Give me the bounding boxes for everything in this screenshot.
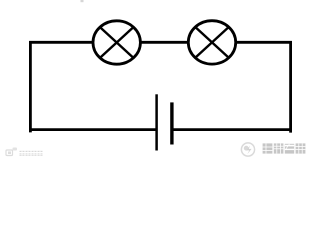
watermark: bottom-left logo and text (6, 148, 43, 156)
wire: bottom-right horizontal (173, 128, 292, 131)
watermark: bottom-right logo (241, 143, 254, 156)
lamp L1 (93, 21, 140, 64)
battery plate: positive (long, thin) (155, 94, 158, 150)
battery plate: negative (short, thick) (170, 102, 173, 144)
wire: top-left horizontal (29, 41, 93, 44)
battery B1 (157, 94, 172, 150)
wire: top-right horizontal (236, 41, 292, 44)
wire: bottom-left horizontal (29, 128, 156, 131)
wire: right vertical (289, 41, 292, 133)
watermark: small top smudge (81, 0, 84, 2)
watermark: bottom-right text (263, 143, 306, 153)
wire: left vertical (29, 41, 32, 132)
lamp L2 (188, 21, 235, 64)
wire: between lamps (140, 41, 188, 44)
